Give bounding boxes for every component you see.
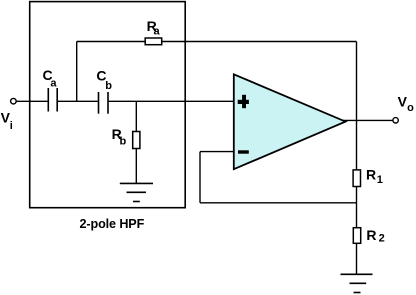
resistor R2 [353,228,360,244]
label Vo [398,93,415,114]
label Rb [112,126,127,147]
op-amp minus marker [238,150,249,153]
wire op-amp output [343,119,393,121]
wire Ca to Cb [57,100,98,102]
label Ra [147,18,161,37]
label R1 [366,166,383,186]
svg-text:R: R [366,166,376,182]
resistor Ra [145,38,162,45]
capacitor Cb [99,92,109,114]
svg-text:i: i [10,120,13,132]
svg-text:V: V [398,93,408,109]
node A: Ca-Cb junction riser to Ra [76,42,78,102]
svg-text:b: b [120,135,127,147]
svg-text:1: 1 [377,174,383,186]
svg-text:R: R [366,227,376,243]
svg-text:b: b [105,80,112,92]
wire Cb to op-amp plus input [108,100,234,102]
op-amp plus marker [238,95,249,108]
svg-text:o: o [407,102,414,114]
op-amp U1 [234,74,346,169]
resistor R1 [353,170,360,187]
label R2 [366,227,384,245]
svg-text:2: 2 [379,233,385,245]
ground (inside HPF box) [120,183,153,201]
input terminal Vi [11,98,17,104]
label Vi [1,110,13,133]
node B: Rb junction riser [135,101,137,183]
output terminal Vo [393,118,398,123]
wire Ra feedback top [77,41,357,43]
ground (below R2) [341,274,373,292]
wire feedback left drop [199,152,201,203]
2-pole HPF enclosure box [30,2,186,208]
capacitor Ca [48,88,57,112]
wire right rail (Ra feedback / R1 / R2) [356,42,358,275]
wire input to Ca [16,100,48,102]
label Cb [96,68,112,93]
resistor Rb [133,132,140,149]
label Ca [43,67,58,89]
svg-text:a: a [50,77,57,89]
svg-text:a: a [154,25,161,37]
wire feedback bottom [200,202,357,204]
svg-text:2-pole HPF: 2-pole HPF [80,217,145,231]
wire minus input [200,151,234,153]
